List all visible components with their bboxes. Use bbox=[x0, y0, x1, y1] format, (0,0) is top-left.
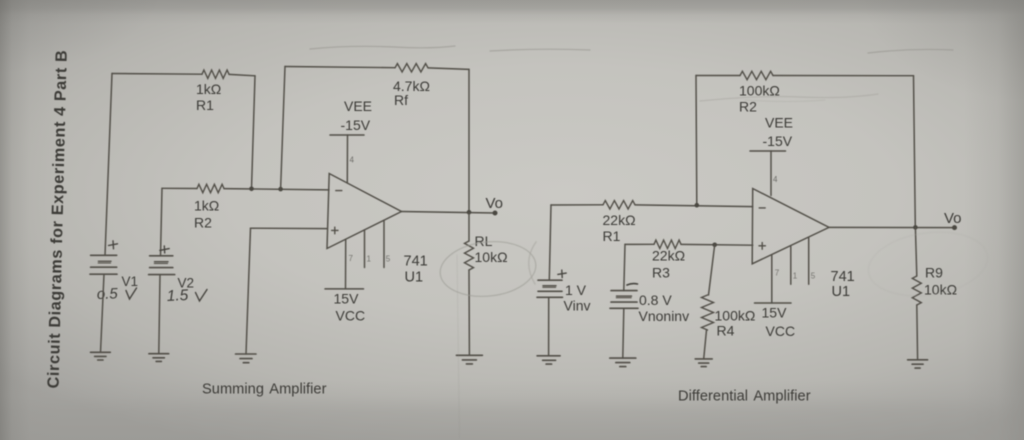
svg-text:1.5: 1.5 bbox=[166, 287, 189, 305]
svg-text:7: 7 bbox=[349, 254, 354, 263]
svg-text:-15V: -15V bbox=[763, 133, 793, 149]
svg-text:R1: R1 bbox=[196, 97, 214, 113]
junction: output / R9 node bbox=[913, 225, 918, 230]
wire: V1 to ground bbox=[101, 274, 105, 352]
svg-text:0.8 V: 0.8 V bbox=[639, 292, 672, 308]
node Vo (summing output) bbox=[486, 195, 504, 216]
svg-text:100kΩ: 100kΩ bbox=[739, 82, 780, 98]
svg-text:Vo: Vo bbox=[486, 195, 504, 212]
faint impression line far top right bbox=[745, 100, 825, 102]
resistor R4 (100kΩ) bbox=[702, 295, 756, 338]
vertical crease bbox=[457, 255, 460, 438]
wire: horizontal left of R2 bbox=[162, 187, 197, 189]
label 741 U1 (diff) bbox=[831, 269, 855, 300]
U1 non-inverting input + sign bbox=[332, 227, 338, 234]
node Vo (diff output) bbox=[944, 210, 962, 230]
wire: top horizontal left of R2 bbox=[696, 75, 740, 77]
wire: output of U1 to Vo bbox=[402, 212, 496, 214]
resistor Rf (4.7kΩ) bbox=[393, 64, 430, 108]
svg-text:7: 7 bbox=[775, 269, 780, 278]
svg-text:5: 5 bbox=[386, 255, 391, 264]
faint arc left of Vinv bbox=[529, 242, 536, 284]
ground (V2) bbox=[149, 354, 169, 362]
wire: inverting wire left of R1 bbox=[551, 204, 603, 206]
ground (Vnoninv) bbox=[610, 358, 636, 367]
faint smudge arc near R9 bbox=[864, 225, 991, 303]
svg-text:1 V: 1 V bbox=[565, 282, 587, 298]
VEE -15V supply (U1 diff) bbox=[750, 114, 793, 151]
svg-text:R9: R9 bbox=[925, 264, 943, 280]
faint impression lines top center bbox=[310, 46, 455, 49]
wire: Vinv branch vertical bbox=[549, 205, 551, 280]
ground (Vinv) bbox=[537, 356, 560, 364]
svg-text:4: 4 bbox=[350, 156, 355, 165]
wire: inverting wire R1 to op-amp bbox=[635, 205, 753, 207]
handwritten value 0.5V (V1) bbox=[97, 285, 137, 303]
pin 5 (U1 diff) bbox=[809, 238, 816, 284]
ground (V1) bbox=[91, 352, 111, 360]
label 741 U1 bbox=[404, 254, 428, 286]
svg-text:15V: 15V bbox=[334, 290, 360, 306]
pin 1 (U1 diff) bbox=[791, 246, 798, 284]
wire: feedback right vertical to output bbox=[468, 69, 470, 212]
svg-text:22kΩ: 22kΩ bbox=[603, 212, 636, 228]
svg-text:Rf: Rf bbox=[394, 92, 408, 108]
svg-text:741: 741 bbox=[404, 254, 428, 270]
wire: R4 to ground bbox=[704, 330, 707, 359]
pin 4 (U1 diff) bbox=[771, 151, 778, 196]
svg-text:10kΩ: 10kΩ bbox=[475, 249, 508, 265]
junction: feedback / inverting node (diff) bbox=[695, 203, 700, 208]
svg-text:1: 1 bbox=[367, 255, 372, 264]
pin 5 (U1) bbox=[384, 220, 391, 267]
wire: R1 branch right vertical down to inverting node bbox=[252, 76, 256, 189]
resistor R2 (1kΩ) bbox=[194, 184, 224, 230]
wire: V2 to ground bbox=[159, 275, 160, 354]
battery V2 (1.5V) bbox=[149, 256, 194, 291]
handwritten + (V1) bbox=[109, 241, 118, 249]
op-amp U1 (diff) triangle bbox=[752, 189, 829, 264]
wire: + input ground vertical bbox=[246, 228, 251, 354]
ground (R4) bbox=[695, 359, 712, 367]
svg-text:R1: R1 bbox=[603, 228, 621, 244]
ground (R9) bbox=[908, 360, 928, 368]
resistor R1 (22kΩ, diff) bbox=[603, 201, 636, 244]
wire: Vinv to ground bbox=[548, 297, 550, 356]
svg-text:Summing Amplifier: Summing Amplifier bbox=[202, 382, 327, 398]
wire: noninverting node down to R4 bbox=[709, 245, 715, 295]
wire: Vo node down to RL bbox=[468, 212, 470, 241]
VEE -15V supply (U1) bbox=[330, 98, 372, 135]
pin 1 (U1) bbox=[365, 230, 372, 268]
svg-text:R4: R4 bbox=[717, 322, 735, 338]
svg-text:5: 5 bbox=[811, 272, 816, 281]
wire: feedback top horizontal left of Rf bbox=[285, 67, 395, 68]
resistor R3 (22kΩ) bbox=[652, 240, 685, 280]
VCC +15V supply (U1), pin 7 stem bbox=[325, 239, 365, 323]
wire: feedback left vertical (R2 branch) bbox=[695, 76, 698, 206]
faint pen oval around RL bbox=[437, 237, 538, 301]
wire: feedback right vertical to output bbox=[914, 76, 916, 228]
svg-text:R2: R2 bbox=[194, 215, 212, 231]
svg-text:1: 1 bbox=[793, 272, 798, 281]
handwritten + (Vinv) bbox=[558, 270, 566, 278]
svg-text:VEE: VEE bbox=[765, 114, 793, 130]
battery V1 (0.5V) bbox=[90, 255, 138, 289]
faint curve top right corner bbox=[490, 49, 953, 53]
svg-text:100kΩ: 100kΩ bbox=[715, 307, 756, 323]
U1 inverting input - sign bbox=[336, 190, 342, 192]
junction: R4 / noninverting node bbox=[712, 243, 717, 248]
wire: V1 top branch (left vertical) bbox=[105, 74, 112, 256]
svg-text:Vnoninv: Vnoninv bbox=[639, 308, 690, 324]
wire: R9 to ground bbox=[916, 305, 919, 360]
svg-text:Circuit Diagrams for Experimen: Circuit Diagrams for Experiment 4 Part B bbox=[45, 50, 71, 389]
svg-text:15V: 15V bbox=[762, 304, 788, 320]
faint impression line top right bbox=[700, 94, 878, 101]
junction: R1 branch / inverting node bbox=[249, 187, 254, 192]
wire: top horizontal right of R1 bbox=[229, 74, 255, 75]
wire: noninverting wire left of R3 bbox=[625, 243, 654, 245]
wire: V2 top branch vertical bbox=[161, 188, 163, 256]
junction: feedback / inverting node bbox=[278, 187, 283, 192]
svg-text:V1: V1 bbox=[122, 274, 139, 289]
wire: Vo node down to R9 bbox=[915, 227, 916, 276]
svg-text:RL: RL bbox=[475, 233, 493, 249]
wire: noninverting branch vertical (Vnoninv) bbox=[624, 244, 625, 290]
junction: output / RL node bbox=[467, 210, 472, 215]
svg-text:4: 4 bbox=[773, 175, 778, 184]
svg-text:22kΩ: 22kΩ bbox=[652, 248, 685, 264]
resistor RL (10kΩ) bbox=[465, 233, 508, 270]
resistor R9 (10kΩ) bbox=[912, 264, 957, 305]
handwritten + (V2) bbox=[160, 246, 169, 253]
wire: feedback left vertical bbox=[281, 67, 285, 190]
wire: inverting input wire (R2 to op-amp) bbox=[224, 189, 329, 190]
svg-text:Differential Amplifier: Differential Amplifier bbox=[678, 389, 811, 405]
wire: Vnoninv to ground bbox=[623, 308, 624, 358]
wire: top horizontal right of R2 bbox=[773, 75, 914, 77]
svg-text:R3: R3 bbox=[652, 265, 670, 281]
U1 diff non-inverting input + sign bbox=[759, 243, 765, 250]
wire: RL to ground bbox=[468, 270, 470, 355]
wire: + input to ground branch horizontal bbox=[251, 227, 328, 229]
wire: feedback top horizontal right of Rf bbox=[428, 68, 469, 70]
resistor R2 (100kΩ) bbox=[739, 71, 780, 114]
wire: noninverting wire R3 to op-amp bbox=[681, 243, 753, 246]
battery Vnoninv (0.8 V) bbox=[610, 291, 689, 324]
svg-text:VCC: VCC bbox=[766, 323, 796, 339]
svg-text:Vo: Vo bbox=[944, 210, 962, 227]
op-amp U1 (summing) triangle bbox=[327, 174, 402, 249]
svg-text:741: 741 bbox=[831, 269, 855, 285]
svg-text:VCC: VCC bbox=[336, 308, 366, 324]
svg-text:Vinv: Vinv bbox=[564, 298, 591, 314]
svg-text:o.5: o.5 bbox=[97, 285, 119, 303]
svg-text:U1: U1 bbox=[832, 284, 851, 300]
battery Vinv (1 V) bbox=[537, 280, 590, 313]
pin 4 (U1) bbox=[347, 135, 354, 183]
svg-text:U1: U1 bbox=[405, 270, 424, 286]
svg-text:-15V: -15V bbox=[341, 117, 371, 133]
wire: top horizontal left of R1 bbox=[112, 73, 202, 76]
resistor R1 (1kΩ) bbox=[196, 70, 229, 113]
svg-text:VEE: VEE bbox=[344, 98, 372, 114]
ground (U1 + input) bbox=[236, 354, 257, 363]
svg-text:1kΩ: 1kΩ bbox=[194, 198, 219, 214]
wire: output of U1 diff to Vo bbox=[829, 226, 955, 228]
U1 diff inverting input - sign bbox=[759, 207, 765, 209]
handwritten value 1.5V (V2) bbox=[166, 287, 207, 305]
VCC +15V supply (U1 diff), pin 7 stem bbox=[755, 255, 796, 338]
svg-text:1kΩ: 1kΩ bbox=[196, 81, 221, 97]
ground (RL) bbox=[456, 355, 482, 364]
handwritten - (Vnoninv) bbox=[627, 284, 638, 285]
